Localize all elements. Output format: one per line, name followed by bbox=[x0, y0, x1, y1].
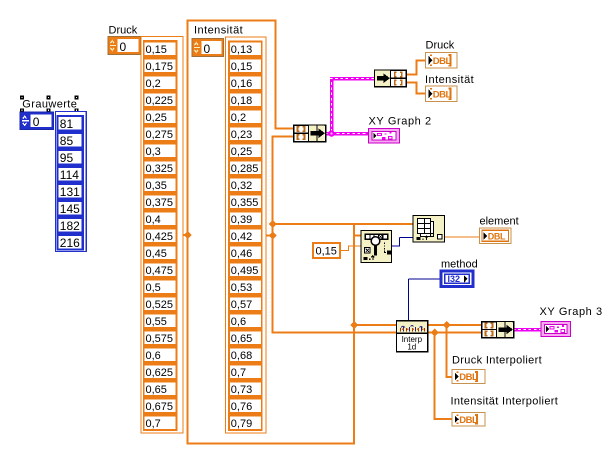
svg-text:0,175: 0,175 bbox=[146, 61, 174, 73]
array cell Druck[4] = 0,25 bbox=[145, 110, 176, 122]
node Interp 1d subVI bbox=[397, 321, 428, 352]
array cell Intensität[7] = 0,285 bbox=[230, 161, 261, 173]
indicator terminal Druck Interpoliert DBL (DBL array) bbox=[452, 370, 485, 384]
array cell Intensität[15] = 0,57 bbox=[230, 297, 261, 309]
array cell Intensität[19] = 0,7 bbox=[230, 365, 261, 377]
svg-text:0: 0 bbox=[33, 115, 40, 129]
array cell Druck[11] = 0,425 bbox=[145, 229, 176, 241]
array cell Druck[8] = 0,35 bbox=[145, 178, 176, 190]
array frame Intensität bbox=[226, 37, 267, 433]
wire bottom horizontal bbox=[187, 443, 356, 445]
svg-text:0,375: 0,375 bbox=[146, 197, 174, 209]
svg-text:I32: I32 bbox=[448, 274, 461, 284]
wire pink Bundle1 output bbox=[325, 132, 334, 136]
indicator terminal Intensitaet Interpoliert DBL (DBL array) bbox=[452, 413, 485, 427]
svg-text:0,225: 0,225 bbox=[146, 95, 174, 107]
array cell Intensität[8] = 0,32 bbox=[230, 178, 261, 190]
svg-text:0,285: 0,285 bbox=[231, 163, 259, 175]
array cell Intensität[12] = 0,46 bbox=[230, 246, 261, 258]
array cells block Grauwerte bbox=[57, 115, 85, 251]
array cell Intensität[17] = 0,65 bbox=[230, 331, 261, 343]
array cell Intensität[16] = 0,6 bbox=[230, 314, 261, 326]
array cell Druck[16] = 0,55 bbox=[145, 314, 176, 326]
array cell Intensität[14] = 0,53 bbox=[230, 280, 261, 292]
svg-text:0,6: 0,6 bbox=[146, 350, 161, 362]
array cell Druck[5] = 0,275 bbox=[145, 127, 176, 139]
array cell Intensität[3] = 0,18 bbox=[230, 93, 261, 105]
svg-text:0,675: 0,675 bbox=[146, 401, 174, 413]
svg-text:element: element bbox=[480, 216, 519, 228]
wire down to Druck Interpoliert bbox=[446, 324, 448, 378]
svg-text:0,7: 0,7 bbox=[231, 367, 246, 379]
junction diamond Intensitaet Interpoliert branch bbox=[431, 329, 439, 337]
node Bundle (XY Graph 3) bbox=[482, 322, 514, 338]
svg-text:0,3: 0,3 bbox=[146, 146, 161, 158]
array cell Druck[7] = 0,325 bbox=[145, 161, 176, 173]
node Unbundle (Druck/Intensitaet) bbox=[375, 70, 407, 87]
svg-text:0,425: 0,425 bbox=[146, 231, 174, 243]
svg-text:0,5: 0,5 bbox=[146, 282, 161, 294]
junction diamond Intensitaet to IndexArray bbox=[269, 220, 277, 228]
array cell Druck[20] = 0,65 bbox=[145, 382, 176, 394]
indicator terminal Intensitaet DBL (DBL array) bbox=[426, 86, 458, 102]
array cell Grauwerte[0] = 81 bbox=[59, 117, 82, 130]
svg-text:XY Graph 3: XY Graph 3 bbox=[540, 306, 603, 318]
svg-text:0,18: 0,18 bbox=[231, 95, 252, 107]
array cell Intensität[1] = 0,15 bbox=[230, 59, 261, 71]
wire pink to Unbundle bbox=[330, 77, 375, 81]
index display Intensitaet bbox=[192, 39, 224, 57]
svg-text:0,16: 0,16 bbox=[231, 78, 252, 90]
svg-text:0,475: 0,475 bbox=[146, 265, 174, 277]
wire into Interp top input bbox=[353, 324, 397, 326]
wire into Bundle1 bottom input bbox=[272, 136, 295, 138]
svg-text:0,275: 0,275 bbox=[146, 129, 174, 141]
svg-text:Intensität: Intensität bbox=[425, 74, 474, 86]
svg-text:0,42: 0,42 bbox=[231, 231, 252, 243]
node Search 1D Array bbox=[361, 231, 392, 263]
svg-text:0,76: 0,76 bbox=[231, 401, 252, 413]
svg-text:method: method bbox=[441, 259, 478, 271]
svg-text:0,2: 0,2 bbox=[146, 78, 161, 90]
svg-text:145: 145 bbox=[60, 202, 80, 216]
wire pink to XY Graph 2 bbox=[332, 132, 370, 136]
junction pink dot bbox=[328, 130, 334, 136]
array cell Intensität[10] = 0,39 bbox=[230, 212, 261, 224]
array cells block Intensität bbox=[228, 40, 263, 431]
svg-text:XY Graph 2: XY Graph 2 bbox=[369, 116, 432, 128]
wire down to Intensitaet Interpoliert bbox=[434, 332, 436, 420]
svg-text:0,15: 0,15 bbox=[316, 246, 337, 258]
array cell Druck[2] = 0,2 bbox=[145, 76, 176, 88]
svg-text:0,355: 0,355 bbox=[231, 197, 259, 209]
array cell Grauwerte[6] = 182 bbox=[59, 219, 82, 232]
svg-text:0,15: 0,15 bbox=[231, 61, 252, 73]
wire Druck top horizontal bbox=[187, 20, 277, 22]
wire Intensitaet vertical trunk bbox=[272, 136, 274, 334]
array cell Druck[15] = 0,525 bbox=[145, 297, 176, 309]
array cell Intensität[18] = 0,68 bbox=[230, 348, 261, 360]
array cell Intensität[13] = 0,495 bbox=[230, 263, 261, 275]
array cell Druck[22] = 0,7 bbox=[145, 416, 176, 428]
svg-text:0,35: 0,35 bbox=[146, 180, 167, 192]
svg-text:0,625: 0,625 bbox=[146, 367, 174, 379]
wire unbundle to Intensitaet DBL bbox=[406, 82, 418, 84]
svg-text:Druck Interpoliert: Druck Interpoliert bbox=[452, 355, 542, 367]
array cell Intensität[9] = 0,355 bbox=[230, 195, 261, 207]
wire unbundle to Druck DBL bbox=[406, 74, 418, 76]
svg-text:114: 114 bbox=[60, 168, 79, 182]
svg-text:Intensität Interpoliert: Intensität Interpoliert bbox=[451, 396, 559, 408]
svg-text:0,6: 0,6 bbox=[231, 316, 246, 328]
array cell Intensität[4] = 0,2 bbox=[230, 110, 261, 122]
svg-text:Druck: Druck bbox=[109, 25, 138, 37]
array cell Intensität[20] = 0,73 bbox=[230, 382, 261, 394]
array cell Druck[1] = 0,175 bbox=[145, 59, 176, 71]
array cell Druck[18] = 0,6 bbox=[145, 348, 176, 360]
wire Intensitaet to Index Array bbox=[272, 223, 414, 225]
svg-text:216: 216 bbox=[60, 236, 80, 250]
array cell Druck[19] = 0,625 bbox=[145, 365, 176, 377]
svg-text:0,73: 0,73 bbox=[231, 384, 252, 396]
wire Druck down to bundle bbox=[275, 20, 277, 130]
svg-text:0,495: 0,495 bbox=[231, 265, 259, 277]
junction diamond Druck stub bbox=[184, 231, 192, 239]
control terminal method (I32) bbox=[441, 271, 473, 287]
array cell Grauwerte[3] = 114 bbox=[59, 168, 82, 181]
index display Grauwerte bbox=[20, 112, 54, 130]
array cells block Druck bbox=[143, 40, 178, 431]
svg-text:0,7: 0,7 bbox=[146, 418, 161, 430]
svg-text:0,4: 0,4 bbox=[146, 214, 161, 226]
array frame Druck bbox=[141, 37, 183, 434]
wire element output bbox=[445, 237, 481, 238]
svg-text:0,55: 0,55 bbox=[146, 316, 167, 328]
selection handles Grauwerte label bbox=[20, 96, 24, 100]
svg-text:0,13: 0,13 bbox=[231, 44, 252, 56]
wire Interp bottom output bbox=[428, 332, 483, 334]
junction diamond Druck Interpoliert branch bbox=[443, 321, 451, 329]
svg-text:0,39: 0,39 bbox=[231, 214, 252, 226]
svg-text:0,46: 0,46 bbox=[231, 248, 252, 260]
array cell Druck[9] = 0,375 bbox=[145, 195, 176, 207]
array cell Druck[14] = 0,5 bbox=[145, 280, 176, 292]
wire 0,15 constant to Search node bbox=[340, 250, 349, 251]
wire Druck vertical trunk bbox=[187, 20, 189, 445]
junction diamond Interp top input bbox=[350, 321, 358, 329]
svg-text:182: 182 bbox=[60, 219, 80, 233]
svg-text:0,45: 0,45 bbox=[146, 248, 167, 260]
svg-text:0,23: 0,23 bbox=[231, 129, 252, 141]
wire Interp top output bbox=[428, 324, 483, 326]
array cell Grauwerte[7] = 216 bbox=[59, 236, 82, 249]
wire pink Bundle2 to XY Graph 3 bbox=[513, 328, 542, 332]
svg-text:0,53: 0,53 bbox=[231, 282, 252, 294]
array cell Druck[0] = 0,15 bbox=[145, 42, 176, 54]
junction diamond Intensitaet stub bbox=[269, 232, 277, 240]
array cell Intensität[5] = 0,23 bbox=[230, 127, 261, 139]
svg-text:0,25: 0,25 bbox=[231, 146, 252, 158]
svg-text:0,575: 0,575 bbox=[146, 333, 174, 345]
wire mid vertical at x354 bbox=[353, 223, 355, 445]
indicator terminal element (DBL scalar) bbox=[480, 228, 512, 244]
wire pink vertical to unbundle bbox=[330, 77, 334, 135]
indicator terminal Druck DBL (DBL array) bbox=[426, 53, 458, 69]
array cell Grauwerte[4] = 131 bbox=[59, 185, 82, 198]
node Index Array bbox=[413, 216, 445, 243]
svg-text:95: 95 bbox=[60, 151, 74, 165]
array cell Druck[17] = 0,575 bbox=[145, 331, 176, 343]
array cell Grauwerte[2] = 95 bbox=[59, 151, 82, 164]
svg-text:0: 0 bbox=[120, 40, 127, 54]
array cell Intensität[6] = 0,25 bbox=[230, 144, 261, 156]
wire into Interp bottom input bbox=[272, 332, 398, 334]
wire blue Search to Index Array bbox=[392, 246, 400, 247]
array cell Druck[13] = 0,475 bbox=[145, 263, 176, 275]
wire Druck array output stub bbox=[181, 234, 190, 236]
array cell Intensität[21] = 0,76 bbox=[230, 399, 261, 411]
svg-text:81: 81 bbox=[60, 117, 74, 131]
indicator terminal XY Graph 3 bbox=[541, 322, 571, 337]
array cell Grauwerte[5] = 145 bbox=[59, 202, 82, 215]
svg-text:0,2: 0,2 bbox=[231, 112, 246, 124]
svg-text:0: 0 bbox=[204, 42, 211, 56]
svg-text:0,325: 0,325 bbox=[146, 163, 174, 175]
wire stub into Search node bbox=[353, 235, 362, 237]
array cell Intensität[2] = 0,16 bbox=[230, 76, 261, 88]
svg-text:0,15: 0,15 bbox=[146, 44, 167, 56]
svg-text:0,65: 0,65 bbox=[146, 384, 167, 396]
index display Druck bbox=[108, 37, 141, 55]
constant 0,15 bbox=[313, 243, 340, 258]
array cell Druck[3] = 0,225 bbox=[145, 93, 176, 105]
svg-text:131: 131 bbox=[60, 185, 80, 199]
svg-text:0,32: 0,32 bbox=[231, 180, 252, 192]
svg-text:0,25: 0,25 bbox=[146, 112, 167, 124]
svg-text:DBL: DBL bbox=[488, 232, 506, 242]
svg-text:0,525: 0,525 bbox=[146, 299, 174, 311]
wire Intensitaet array output stub bbox=[265, 235, 274, 237]
array cell Grauwerte[1] = 85 bbox=[59, 134, 82, 147]
svg-text:1d: 1d bbox=[407, 343, 416, 352]
svg-text:Intensität: Intensität bbox=[194, 25, 243, 37]
node Bundle (XY Graph 2) bbox=[294, 125, 326, 142]
array cell Druck[12] = 0,45 bbox=[145, 246, 176, 258]
array cell Intensität[0] = 0,13 bbox=[230, 42, 261, 54]
svg-text:0,65: 0,65 bbox=[231, 333, 252, 345]
indicator terminal XY Graph 2 bbox=[369, 129, 400, 144]
svg-text:85: 85 bbox=[60, 134, 74, 148]
svg-text:Druck: Druck bbox=[426, 40, 455, 52]
array cell Intensität[22] = 0,79 bbox=[230, 416, 261, 428]
svg-text:0,57: 0,57 bbox=[231, 299, 252, 311]
array cell Druck[21] = 0,675 bbox=[145, 399, 176, 411]
array cell Druck[10] = 0,4 bbox=[145, 212, 176, 224]
array cell Druck[6] = 0,3 bbox=[145, 144, 176, 156]
wire into Bundle1 top input bbox=[275, 128, 295, 130]
svg-text:0,79: 0,79 bbox=[231, 418, 252, 430]
wire method I32 to Interp bbox=[409, 279, 442, 280]
array frame Grauwerte bbox=[56, 112, 87, 252]
svg-text:0,68: 0,68 bbox=[231, 350, 252, 362]
array cell Intensität[11] = 0,42 bbox=[230, 229, 261, 241]
